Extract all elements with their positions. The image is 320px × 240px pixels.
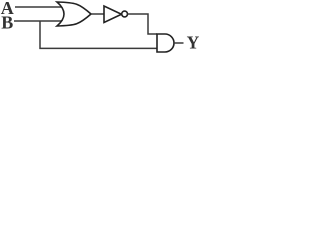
wire NOT output down to AND top input <box>128 14 158 34</box>
wire OR output to NOT input <box>91 13 104 15</box>
wire A to OR input <box>15 6 62 8</box>
wire B branch down and across to AND <box>40 21 157 48</box>
wire B to OR input <box>14 20 62 22</box>
inverter U1 bubble <box>122 11 128 17</box>
svg-text:Y: Y <box>187 33 200 53</box>
and-gate G2 <box>157 34 174 52</box>
svg-text:B: B <box>1 12 13 32</box>
wire AND output <box>174 42 184 44</box>
inverter U1 triangle <box>104 6 122 23</box>
or-gate G1 <box>57 2 91 26</box>
